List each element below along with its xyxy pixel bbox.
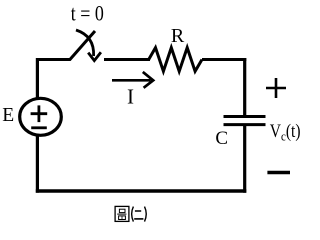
svg-text:Vc(t): Vc(t)	[270, 122, 301, 144]
caption hanzi tu (figure)	[115, 206, 129, 221]
wire left vertical lower	[36, 136, 39, 193]
caption hanzi er (two)	[134, 211, 143, 219]
voltage source minus	[31, 126, 47, 129]
wire bottom	[36, 189, 247, 192]
wire resistor to top-right corner	[202, 58, 246, 61]
svg-text:I: I	[127, 85, 134, 109]
resistor R	[149, 48, 202, 72]
capacitor C top plate	[224, 115, 266, 118]
voltage source E circle	[20, 98, 62, 135]
svg-text:E: E	[2, 105, 14, 126]
wire right vertical upper	[243, 58, 246, 115]
plus sign of Vc	[266, 78, 286, 98]
voltage source plus	[31, 105, 48, 122]
svg-text:t = 0: t = 0	[71, 1, 104, 26]
capacitor C bottom plate	[224, 123, 266, 126]
current arrow	[112, 72, 153, 88]
minus sign of Vc	[267, 171, 290, 174]
svg-text:R: R	[171, 25, 185, 47]
switch SW blade	[70, 31, 96, 60]
svg-text:C: C	[215, 128, 228, 149]
wire right vertical lower	[243, 126, 246, 193]
wire top-left segment	[36, 58, 71, 61]
switch closing arc arrow	[76, 30, 101, 61]
wire switch to resistor	[104, 58, 150, 61]
caption left paren	[132, 207, 134, 222]
wire left vertical upper	[36, 58, 39, 99]
caption right paren	[145, 207, 147, 222]
